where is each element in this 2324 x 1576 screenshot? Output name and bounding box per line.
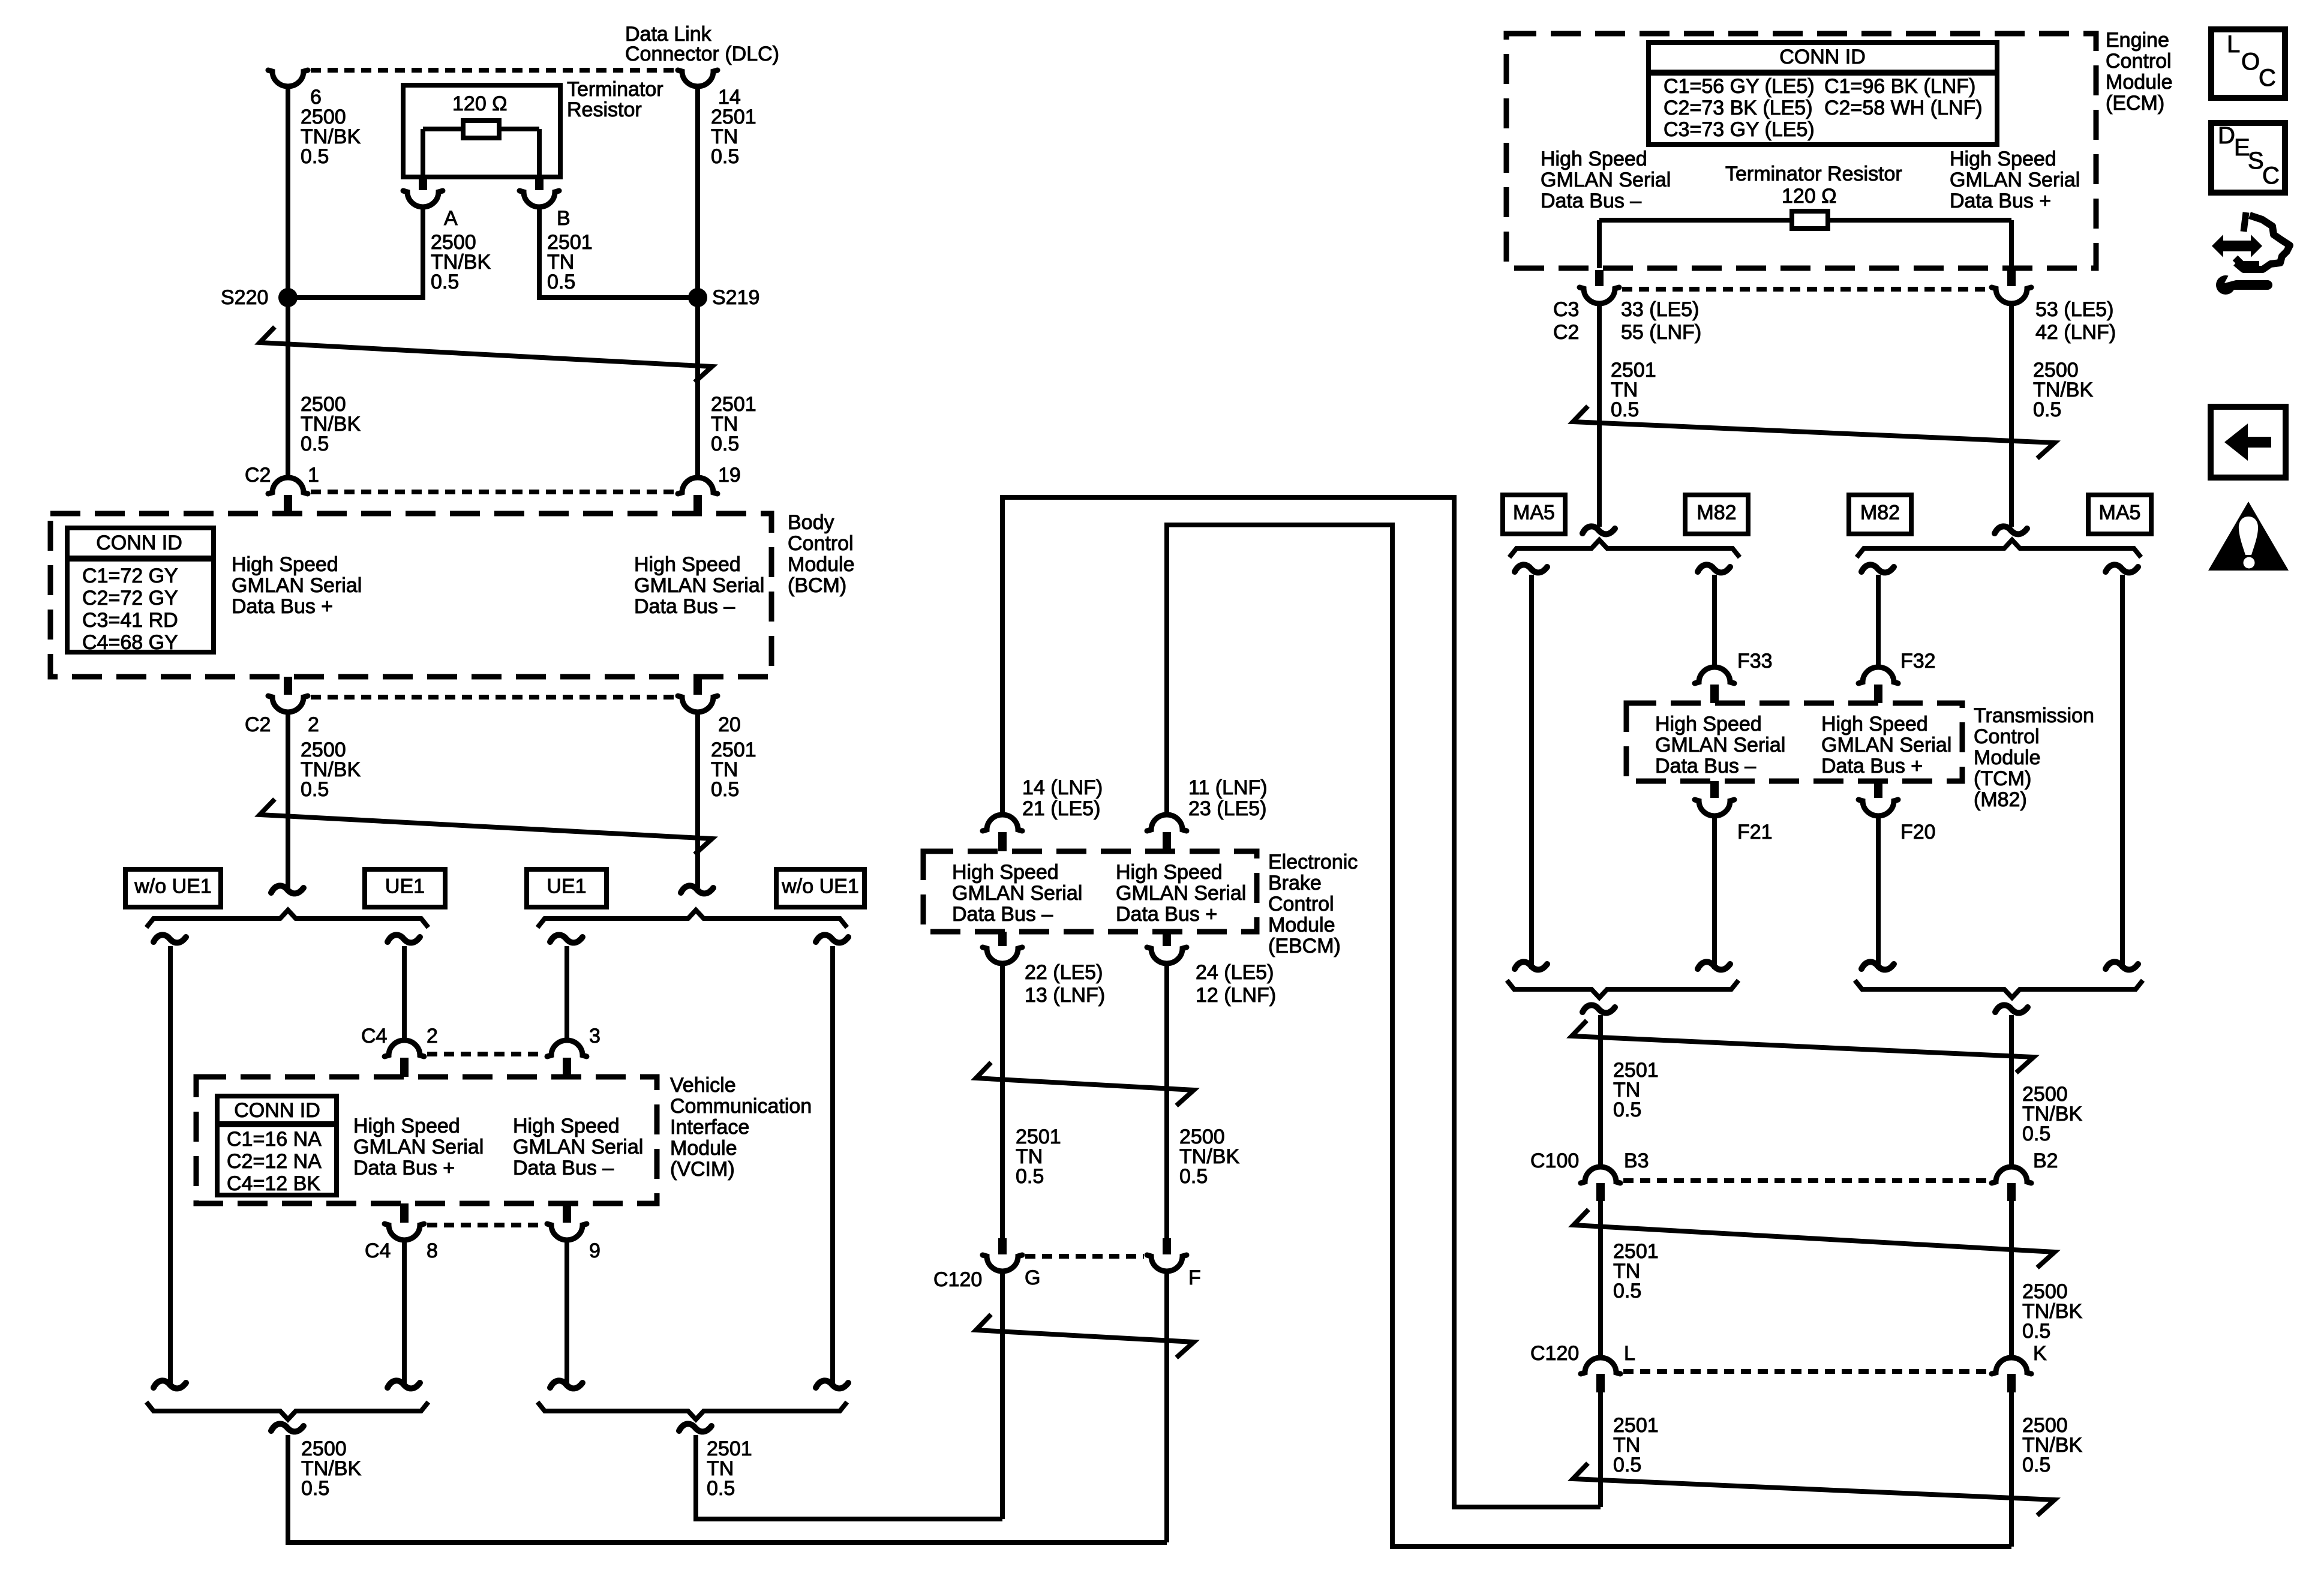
svg-text:GMLAN Serial: GMLAN Serial — [1950, 169, 2080, 191]
svg-text:2: 2 — [308, 713, 319, 736]
svg-text:21 (LE5): 21 (LE5) — [1022, 797, 1100, 820]
svg-text:0.5: 0.5 — [2022, 1122, 2050, 1145]
svg-text:Module: Module — [1268, 914, 1335, 936]
svg-text:0.5: 0.5 — [1613, 1098, 1641, 1121]
svg-text:C: C — [2262, 163, 2280, 189]
svg-text:0.5: 0.5 — [1611, 398, 1639, 421]
svg-text:C1=56 GY (LE5): C1=56 GY (LE5) — [1664, 75, 1815, 98]
svg-text:S219: S219 — [712, 286, 759, 309]
svg-text:55 (LNF): 55 (LNF) — [1621, 321, 1701, 344]
svg-text:Control: Control — [1268, 893, 1334, 915]
svg-text:GMLAN Serial: GMLAN Serial — [1821, 734, 1951, 757]
svg-text:High Speed: High Speed — [1950, 148, 2056, 170]
svg-text:High Speed: High Speed — [513, 1115, 620, 1137]
svg-text:Body: Body — [788, 511, 834, 534]
svg-text:C2=73 BK (LE5): C2=73 BK (LE5) — [1664, 97, 1813, 119]
svg-text:C2: C2 — [1553, 321, 1579, 344]
svg-text:S: S — [2248, 148, 2264, 174]
svg-text:(TCM): (TCM) — [1974, 767, 2031, 790]
svg-text:0.5: 0.5 — [711, 433, 739, 455]
svg-text:8: 8 — [427, 1239, 438, 1262]
svg-text:Module: Module — [670, 1137, 737, 1160]
svg-text:C2=72 GY: C2=72 GY — [82, 587, 178, 610]
svg-text:Data Bus –: Data Bus – — [952, 903, 1053, 926]
svg-text:C100: C100 — [1530, 1149, 1579, 1172]
svg-text:Module: Module — [2106, 71, 2173, 94]
svg-text:1: 1 — [308, 464, 319, 487]
svg-text:C4=12 BK: C4=12 BK — [227, 1172, 320, 1195]
svg-text:High Speed: High Speed — [634, 553, 741, 576]
svg-text:Data Bus +: Data Bus + — [1116, 903, 1217, 926]
svg-text:(VCIM): (VCIM) — [670, 1158, 735, 1181]
svg-text:0.5: 0.5 — [1613, 1280, 1641, 1302]
svg-text:GMLAN Serial: GMLAN Serial — [952, 882, 1082, 905]
svg-text:High Speed: High Speed — [1116, 861, 1223, 884]
svg-text:F33: F33 — [1737, 650, 1773, 673]
svg-text:11 (LNF): 11 (LNF) — [1188, 776, 1268, 799]
svg-text:C120: C120 — [933, 1268, 982, 1291]
svg-text:A: A — [444, 207, 458, 230]
svg-text:Vehicle: Vehicle — [670, 1074, 736, 1097]
svg-text:0.5: 0.5 — [431, 271, 459, 293]
svg-text:Data Bus +: Data Bus + — [232, 595, 333, 618]
svg-text:Data Bus –: Data Bus – — [1541, 190, 1641, 212]
svg-text:F21: F21 — [1737, 821, 1773, 843]
svg-text:C: C — [2259, 65, 2276, 91]
svg-text:C2=58 WH (LNF): C2=58 WH (LNF) — [1824, 97, 1983, 119]
svg-text:Transmission: Transmission — [1974, 704, 2094, 727]
svg-text:C120: C120 — [1530, 1342, 1579, 1365]
svg-text:Control: Control — [788, 532, 854, 555]
svg-text:Control: Control — [1974, 725, 2040, 748]
svg-text:UE1: UE1 — [385, 875, 425, 898]
svg-text:MA5: MA5 — [1513, 502, 1555, 524]
svg-text:MA5: MA5 — [2099, 502, 2141, 524]
svg-text:UE1: UE1 — [547, 875, 586, 898]
svg-text:0.5: 0.5 — [1613, 1454, 1641, 1476]
svg-text:GMLAN Serial: GMLAN Serial — [1116, 882, 1246, 905]
svg-text:Interface: Interface — [670, 1116, 749, 1139]
svg-text:GMLAN Serial: GMLAN Serial — [634, 574, 764, 597]
svg-text:0.5: 0.5 — [2022, 1320, 2050, 1343]
svg-text:C3: C3 — [1553, 298, 1579, 321]
svg-text:Module: Module — [1974, 746, 2041, 769]
svg-text:(EBCM): (EBCM) — [1268, 935, 1341, 957]
svg-text:0.5: 0.5 — [547, 271, 575, 293]
svg-text:C3=73 GY (LE5): C3=73 GY (LE5) — [1664, 118, 1815, 141]
svg-text:24 (LE5): 24 (LE5) — [1196, 961, 1274, 984]
svg-text:0.5: 0.5 — [1016, 1165, 1044, 1188]
svg-text:22 (LE5): 22 (LE5) — [1025, 961, 1103, 984]
svg-text:120 Ω: 120 Ω — [452, 92, 508, 115]
svg-text:120 Ω: 120 Ω — [1782, 185, 1837, 208]
svg-text:C2: C2 — [245, 713, 271, 736]
svg-text:42 (LNF): 42 (LNF) — [2035, 321, 2116, 344]
svg-text:B: B — [557, 207, 571, 230]
svg-text:GMLAN Serial: GMLAN Serial — [232, 574, 362, 597]
svg-text:19: 19 — [718, 464, 741, 487]
svg-text:GMLAN Serial: GMLAN Serial — [513, 1136, 643, 1158]
svg-text:L: L — [2227, 31, 2240, 58]
svg-text:Engine: Engine — [2106, 29, 2169, 52]
svg-text:0.5: 0.5 — [301, 778, 329, 801]
svg-text:Connector (DLC): Connector (DLC) — [625, 43, 779, 65]
svg-text:C1=96 BK (LNF): C1=96 BK (LNF) — [1824, 75, 1975, 98]
svg-text:F20: F20 — [1900, 821, 1936, 843]
svg-text:Data Bus –: Data Bus – — [634, 595, 735, 618]
svg-text:Electronic: Electronic — [1268, 851, 1358, 873]
svg-text:O: O — [2241, 49, 2260, 75]
svg-text:12 (LNF): 12 (LNF) — [1196, 984, 1276, 1007]
svg-text:Control: Control — [2106, 50, 2172, 73]
svg-text:0.5: 0.5 — [711, 778, 739, 801]
svg-text:High Speed: High Speed — [1821, 713, 1928, 736]
svg-text:Data Bus +: Data Bus + — [1950, 190, 2051, 212]
svg-text:9: 9 — [589, 1239, 600, 1262]
svg-text:0.5: 0.5 — [2033, 398, 2061, 421]
svg-text:53 (LE5): 53 (LE5) — [2035, 298, 2113, 321]
svg-text:F: F — [1188, 1266, 1201, 1289]
svg-text:GMLAN Serial: GMLAN Serial — [353, 1136, 484, 1158]
svg-text:CONN ID: CONN ID — [234, 1099, 320, 1122]
svg-text:23 (LE5): 23 (LE5) — [1188, 797, 1266, 820]
svg-text:B2: B2 — [2033, 1149, 2058, 1172]
svg-text:3: 3 — [589, 1025, 600, 1047]
svg-text:0.5: 0.5 — [301, 1477, 329, 1500]
svg-text:K: K — [2033, 1342, 2047, 1365]
svg-text:w/o UE1: w/o UE1 — [134, 875, 212, 898]
svg-text:0.5: 0.5 — [711, 145, 739, 168]
svg-text:C4: C4 — [365, 1239, 391, 1262]
svg-text:Data Bus +: Data Bus + — [1821, 755, 1923, 778]
svg-text:33 (LE5): 33 (LE5) — [1621, 298, 1699, 321]
svg-text:Terminator Resistor: Terminator Resistor — [1725, 163, 1902, 185]
svg-text:M82: M82 — [1697, 502, 1736, 524]
svg-text:0.5: 0.5 — [2022, 1454, 2050, 1476]
svg-text:D: D — [2218, 122, 2235, 149]
svg-text:GMLAN Serial: GMLAN Serial — [1541, 169, 1671, 191]
svg-text:13 (LNF): 13 (LNF) — [1025, 984, 1105, 1007]
svg-text:C1=16 NA: C1=16 NA — [227, 1128, 322, 1151]
svg-text:0.5: 0.5 — [1179, 1165, 1208, 1188]
svg-text:C3=41 RD: C3=41 RD — [82, 609, 178, 632]
svg-text:High Speed: High Speed — [952, 861, 1059, 884]
svg-text:CONN ID: CONN ID — [96, 532, 182, 554]
svg-text:0.5: 0.5 — [301, 433, 329, 455]
svg-text:2: 2 — [427, 1025, 438, 1047]
svg-text:L: L — [1624, 1342, 1635, 1365]
svg-text:Module: Module — [788, 553, 855, 576]
svg-text:GMLAN Serial: GMLAN Serial — [1655, 734, 1785, 757]
svg-text:C1=72 GY: C1=72 GY — [82, 565, 178, 587]
svg-text:B3: B3 — [1624, 1149, 1649, 1172]
svg-text:CONN ID: CONN ID — [1779, 46, 1866, 68]
svg-text:20: 20 — [718, 713, 741, 736]
svg-text:14 (LNF): 14 (LNF) — [1022, 776, 1103, 799]
svg-text:C4=68 GY: C4=68 GY — [82, 631, 178, 654]
svg-text:G: G — [1025, 1266, 1040, 1289]
svg-text:High Speed: High Speed — [1541, 148, 1647, 170]
svg-text:High Speed: High Speed — [1655, 713, 1762, 736]
svg-text:0.5: 0.5 — [707, 1477, 735, 1500]
svg-text:M82: M82 — [1860, 502, 1900, 524]
svg-text:w/o UE1: w/o UE1 — [781, 875, 859, 898]
svg-text:Data Bus –: Data Bus – — [1655, 755, 1756, 778]
svg-text:Resistor: Resistor — [567, 98, 642, 121]
svg-text:(M82): (M82) — [1974, 788, 2027, 811]
svg-text:(ECM): (ECM) — [2106, 92, 2164, 115]
svg-text:Data Bus +: Data Bus + — [353, 1157, 455, 1179]
svg-text:(BCM): (BCM) — [788, 574, 846, 597]
svg-text:C2: C2 — [245, 464, 271, 487]
svg-text:High Speed: High Speed — [232, 553, 338, 576]
svg-text:C4: C4 — [361, 1025, 387, 1047]
svg-text:S220: S220 — [221, 286, 268, 309]
svg-text:Brake: Brake — [1268, 872, 1322, 894]
svg-text:F32: F32 — [1900, 650, 1936, 673]
svg-text:C2=12 NA: C2=12 NA — [227, 1150, 322, 1173]
svg-text:Data Bus –: Data Bus – — [513, 1157, 614, 1179]
svg-text:Communication: Communication — [670, 1095, 812, 1118]
svg-text:0.5: 0.5 — [301, 145, 329, 168]
svg-text:Terminator: Terminator — [567, 78, 663, 101]
svg-text:High Speed: High Speed — [353, 1115, 460, 1137]
